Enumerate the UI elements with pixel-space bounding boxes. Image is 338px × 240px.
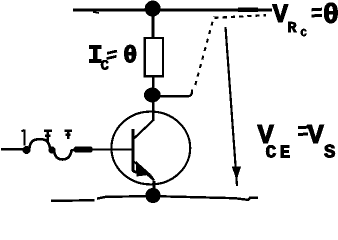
source vs: input terminal dot <box>23 146 31 154</box>
source vs: mid junction dot <box>48 146 55 153</box>
measurement arrow V_CE <box>226 27 242 186</box>
transistor Q1 emitter with arrow <box>134 161 154 181</box>
dashed pointer horizontal to V_RC label <box>215 15 267 18</box>
node: collector junction <box>144 88 161 103</box>
source vs: terminal tick mark <box>22 130 25 146</box>
node: emitter-ground junction <box>145 188 160 203</box>
source vs: sine upper hump <box>29 139 50 149</box>
transistor Q1 body circle <box>111 112 190 185</box>
source vs: small glyph 1 above <box>44 130 52 143</box>
wire: collector lead into transistor <box>134 101 154 139</box>
label I_C = 0 <box>89 45 135 69</box>
wire: thick base segment <box>74 147 92 153</box>
node: top collector-supply junction <box>145 1 161 17</box>
transistor Q1 base bar <box>133 129 137 172</box>
wire: base lead to transistor <box>92 148 133 150</box>
source vs: sine lower hump <box>54 150 75 160</box>
label V_RC = 0 <box>273 3 338 36</box>
resistor RC <box>145 38 163 76</box>
wire: bottom ground rail <box>51 196 258 201</box>
wire: top node to resistor <box>152 15 155 39</box>
wire: resistor to collector node <box>152 76 155 89</box>
dashed pointer diagonal to V_RC label <box>195 17 214 86</box>
wire: top supply rail <box>73 10 272 13</box>
label V_CE = V_S <box>258 125 335 157</box>
source vs: small glyph 2 above <box>65 130 73 140</box>
wire: input lead <box>1 148 28 151</box>
wire: emitter lead to bottom node <box>152 181 155 193</box>
wire: collector node to dashed pointer hook <box>159 90 192 97</box>
